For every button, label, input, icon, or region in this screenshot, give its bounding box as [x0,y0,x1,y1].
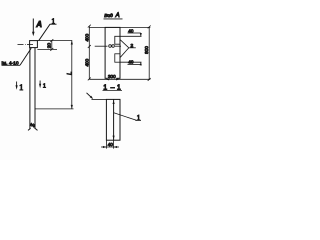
view A slot bottom extension [120,61,142,63]
view A dimension 300 arrows [105,78,120,80]
svg-text:1: 1 [19,83,23,92]
section 1-1 inner line arrows [113,100,115,104]
view A title underline [104,18,123,20]
svg-text:300: 300 [108,74,116,79]
view A left dimension line [88,25,91,81]
view A slots leader [120,40,136,58]
svg-text:L: L [68,72,74,75]
view A plate outline [105,27,120,78]
section 1-1 bottom dim extensions [106,140,113,148]
svg-text:1: 1 [43,83,46,90]
dimension 20 line [50,39,53,51]
dimension L bottom extension [35,108,74,110]
view A centerline with holes [95,45,121,48]
svg-text:А: А [115,12,120,19]
svg-text:Вид: Вид [104,13,113,19]
svg-text:400: 400 [85,33,90,41]
svg-text:A: A [35,20,42,29]
balloon 1 leader [39,24,57,41]
svg-text:20: 20 [47,43,53,49]
weld leader [2,48,32,65]
dimension 20 extension lines [37,41,72,50]
bar (front view) [30,48,35,129]
svg-text:800: 800 [144,46,149,54]
plate (front view) [30,41,38,48]
svg-text:Ім. 4-10: Ім. 4-10 [2,60,19,65]
svg-text:2: 2 [131,43,134,49]
view A slot top extension [120,35,142,37]
section label 1-1 [103,85,121,92]
section label underline [103,89,123,91]
view A upper slot [115,36,120,44]
view A top callout 40 [128,33,142,36]
svg-text:1: 1 [52,17,56,25]
svg-text:400: 400 [85,58,90,66]
view A dimension 300 text [108,74,117,79]
section 1-1 bottom dim line and arrows [101,146,119,148]
view A right dimension line [148,26,151,81]
bar break marks [28,124,38,131]
svg-text:40: 40 [128,60,134,65]
section mark 1 right [39,81,41,89]
view direction arrow A [32,19,35,37]
svg-text:40: 40 [128,28,134,33]
section 1-1 balloon leader [114,113,141,121]
dimension L line [71,41,73,109]
section 1-1 top extension [92,98,107,100]
svg-text:40: 40 [108,142,114,147]
section 1-1 outline [106,99,120,140]
section 1-1 inner line [113,99,115,140]
section 1-1 top leader arrow [87,93,94,99]
view A top extension line [89,26,150,28]
svg-text:1: 1 [137,114,141,122]
view A lower slot [115,54,120,62]
centerline (front view) [18,43,34,45]
section mark 1 left [16,82,18,90]
view A bottom extension line [89,78,150,80]
view A bottom callout 40 [128,62,142,65]
